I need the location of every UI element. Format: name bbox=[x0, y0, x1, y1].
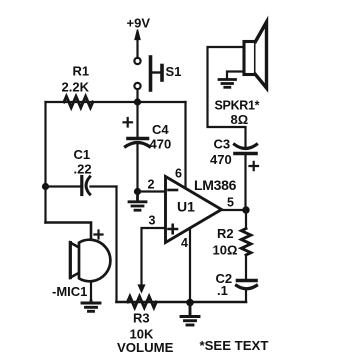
wire S1 to top rail bbox=[136, 90, 138, 103]
wire pin5 node up to C3 bbox=[244, 155, 246, 211]
ground bottom rail bbox=[181, 305, 199, 325]
svg-text:5: 5 bbox=[227, 196, 234, 210]
power +9V bbox=[127, 16, 151, 58]
wire MIC1 to ground bbox=[90, 282, 92, 302]
svg-text:R3: R3 bbox=[133, 311, 150, 326]
svg-text:C3: C3 bbox=[214, 137, 231, 152]
svg-text:R2: R2 bbox=[217, 226, 234, 241]
svg-text:470: 470 bbox=[210, 152, 232, 167]
wire bottom rail bbox=[117, 301, 247, 304]
node junction pin5 bbox=[242, 206, 249, 213]
svg-text:+9V: +9V bbox=[127, 16, 151, 31]
wire pin4 bbox=[189, 229, 191, 303]
wire C3 up and over to speaker bbox=[208, 47, 246, 148]
svg-text:LM386: LM386 bbox=[194, 177, 237, 193]
svg-text:R1: R1 bbox=[73, 64, 90, 79]
wire pin5 bbox=[222, 209, 247, 211]
capacitor C2 bbox=[216, 271, 257, 298]
wire top rail bbox=[46, 101, 186, 103]
svg-text:.22: .22 bbox=[74, 162, 92, 177]
svg-text:*SEE TEXT: *SEE TEXT bbox=[200, 338, 269, 353]
capacitor C4 bbox=[124, 102, 172, 152]
ground MIC1 bbox=[82, 301, 100, 311]
svg-text:2: 2 bbox=[148, 178, 155, 192]
node junction C1 left bbox=[42, 183, 49, 190]
ground speaker bbox=[219, 80, 236, 88]
svg-text:C4: C4 bbox=[152, 122, 169, 137]
capacitor C1 bbox=[46, 147, 117, 195]
op-amp U1 bbox=[148, 167, 237, 251]
speaker SPKR1 bbox=[215, 22, 267, 127]
svg-text:VOLUME: VOLUME bbox=[117, 340, 174, 355]
svg-text:.1: .1 bbox=[217, 283, 228, 298]
microphone MIC1 bbox=[52, 231, 110, 300]
svg-text:SPKR1*: SPKR1* bbox=[215, 99, 260, 113]
potentiometer R3 bbox=[117, 296, 174, 355]
wiper arrow bbox=[138, 285, 144, 292]
svg-text:3: 3 bbox=[149, 214, 156, 228]
node junction pin4 bottom rail bbox=[186, 299, 194, 307]
svg-text:U1: U1 bbox=[177, 199, 195, 215]
ground pin2 bbox=[129, 195, 146, 210]
svg-text:-MIC1: -MIC1 bbox=[52, 284, 87, 299]
svg-text:2.2K: 2.2K bbox=[62, 80, 90, 95]
node junction pin2 bbox=[134, 188, 141, 195]
wire C4 to pin2 node bbox=[136, 144, 138, 192]
svg-text:10Ω: 10Ω bbox=[213, 243, 238, 258]
svg-text:4: 4 bbox=[181, 236, 188, 250]
wire pin3 to R3 wiper bbox=[142, 228, 166, 285]
svg-text:S1: S1 bbox=[166, 64, 182, 79]
wire R2 to C2 bbox=[245, 255, 247, 280]
wire step to MIC1 bbox=[46, 223, 92, 242]
wire speaker ground stub bbox=[227, 72, 244, 79]
node junction below S1 bbox=[134, 98, 141, 105]
wire pin6 bbox=[184, 102, 186, 189]
wire pin2 bbox=[138, 190, 166, 192]
svg-text:470: 470 bbox=[150, 137, 172, 152]
svg-text:C1: C1 bbox=[74, 147, 91, 162]
resistor R1 bbox=[62, 64, 93, 108]
svg-text:8Ω: 8Ω bbox=[231, 112, 249, 127]
wire C1 down to bottom rail bbox=[115, 187, 117, 303]
wire left rail bbox=[44, 102, 46, 223]
wire C2 down to bottom rail bbox=[245, 290, 247, 303]
switch S1 bbox=[134, 57, 181, 90]
svg-text:6: 6 bbox=[175, 167, 182, 181]
resistor R2 bbox=[213, 210, 251, 258]
capacitor C3 bbox=[210, 137, 258, 171]
